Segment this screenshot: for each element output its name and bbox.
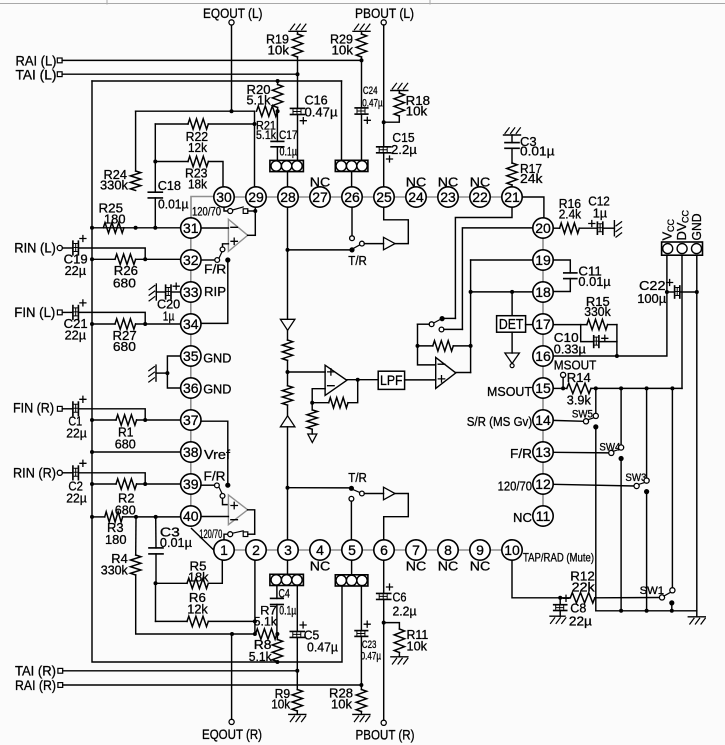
svg-text:0.01µ: 0.01µ xyxy=(160,535,192,550)
resistor R15 330k xyxy=(587,319,608,329)
pin 7 xyxy=(406,540,426,560)
pin 19 xyxy=(533,250,553,270)
wire box2 mid to pin26 xyxy=(351,172,353,188)
svg-text:28: 28 xyxy=(280,189,296,205)
junction ground bracket xyxy=(165,371,169,375)
svg-text:0.47µ: 0.47µ xyxy=(362,97,383,109)
capacitor C10 0.33u xyxy=(581,325,594,342)
resistor U4 feedback xyxy=(418,345,433,347)
wire pin39 to F/R switch xyxy=(201,484,215,486)
resistor below feedback xyxy=(311,403,313,410)
svg-text:680: 680 xyxy=(113,276,136,291)
resistor U3 feedback xyxy=(329,398,348,408)
arrow down below resistor xyxy=(308,434,317,443)
switch T/R top upper contact xyxy=(350,236,355,241)
wire pin to SW5 xyxy=(553,419,583,422)
switch 120/70 top: pin30 stub xyxy=(224,207,227,211)
wire det B xyxy=(444,328,463,330)
wire C2 to R2 row xyxy=(78,473,145,484)
junction EQOUT(R)/R4 wire xyxy=(230,632,234,636)
svg-text:F/R: F/R xyxy=(204,468,226,483)
junction Vcc/C22 xyxy=(665,290,669,294)
terminal RAI (L) xyxy=(57,58,62,63)
wire pin15 row xyxy=(553,387,567,389)
resistor R21 5.1k xyxy=(257,106,278,116)
svg-text:10k: 10k xyxy=(332,42,354,57)
buffer triangle up (bottom) xyxy=(280,416,295,427)
svg-text:18k: 18k xyxy=(188,176,207,191)
svg-text:3.9k: 3.9k xyxy=(567,393,591,408)
terminal RAI (R) xyxy=(58,683,63,688)
svg-text:17: 17 xyxy=(535,316,551,332)
wire GND vertical xyxy=(696,255,698,610)
svg-text:2.2µ: 2.2µ xyxy=(393,603,417,618)
junction R24/R25 row xyxy=(134,226,138,230)
wire C21 to R27 row xyxy=(78,312,145,324)
ground at pins35-36 xyxy=(155,365,157,381)
wire RIN(L) to C19 xyxy=(62,247,73,249)
junction T/R bottom row xyxy=(286,486,290,490)
svg-text:C17: C17 xyxy=(279,130,298,142)
junction U4 fb right xyxy=(469,344,473,348)
wire pin19 row xyxy=(471,259,533,261)
resistor R27 680 xyxy=(115,319,136,329)
SW5 common dot xyxy=(593,424,598,429)
capacitor C19 22u xyxy=(72,241,74,255)
switch 120/70 bottom: pin1 stub xyxy=(224,534,227,540)
buffer B2 (T/R bottom) xyxy=(384,487,396,500)
ground at C12 xyxy=(613,221,615,236)
wire EQOUT(L) vertical xyxy=(231,25,233,111)
svg-text:3: 3 xyxy=(284,542,292,558)
switch SW1 common dot xyxy=(669,600,674,605)
svg-text:FIN (R): FIN (R) xyxy=(13,400,54,416)
capacitor C24 0.47u xyxy=(355,107,368,109)
pin 10 xyxy=(502,540,522,560)
svg-text:10: 10 xyxy=(504,542,520,558)
capacitor C22 100u xyxy=(667,291,675,293)
pin 5 xyxy=(342,540,362,560)
svg-text:31: 31 xyxy=(183,220,199,236)
wire pin28 vertical upper xyxy=(287,207,289,319)
wire FIN(L) to C21 xyxy=(62,311,73,313)
wire DET row to pin18 xyxy=(471,291,533,293)
wire U2 output xyxy=(248,510,255,534)
pin 33 xyxy=(181,282,201,302)
pin 32 xyxy=(181,250,201,270)
terminal MSOUT test point xyxy=(561,372,566,377)
wire R4 row right part xyxy=(232,633,256,635)
svg-text:0.47µ: 0.47µ xyxy=(305,104,339,119)
pin 12 xyxy=(533,474,553,494)
svg-text:21: 21 xyxy=(504,189,520,205)
resistor R5 18k xyxy=(187,578,208,588)
svg-text:PBOUT (L): PBOUT (L) xyxy=(355,6,414,21)
wire U1 plus input path xyxy=(223,244,229,247)
switch T/R top common dot xyxy=(349,247,354,252)
wire pin32 to F/R switch xyxy=(201,259,215,261)
pin 27 xyxy=(310,187,330,207)
junction U4 fb left xyxy=(416,344,420,348)
resistor R1 680 xyxy=(116,415,137,425)
wire pin21 route xyxy=(455,207,512,318)
svg-text:10k: 10k xyxy=(406,104,428,119)
IC body link top row (grey) xyxy=(224,196,512,198)
pin 22 xyxy=(470,187,490,207)
junction center column/opamp plus xyxy=(286,370,290,374)
svg-text:19: 19 xyxy=(535,252,551,268)
junction TAI(L)/R19 net xyxy=(296,72,300,76)
resistor center lower xyxy=(282,386,292,405)
switch 120/70 bottom throw contact xyxy=(243,532,248,537)
wire RIN(R) to C2 xyxy=(62,472,73,474)
wire to buffer B1 xyxy=(364,243,383,245)
svg-text:40: 40 xyxy=(183,508,199,524)
ground at R11 xyxy=(391,656,408,658)
switch 120/70 top movable contact xyxy=(228,209,233,214)
svg-text:120/70: 120/70 xyxy=(498,478,532,493)
wire U4 minus input xyxy=(418,324,436,365)
pin 25 xyxy=(374,187,394,207)
label GND (rotated) xyxy=(689,214,704,241)
junction R20 top xyxy=(276,79,280,83)
wire PBOUT(R) vertical xyxy=(383,560,385,593)
svg-text:T/R: T/R xyxy=(348,253,367,268)
terminal TAI (L) xyxy=(57,72,62,77)
switch T/R bottom throw contact xyxy=(360,491,365,496)
svg-text:1µ: 1µ xyxy=(593,205,608,220)
svg-text:C18: C18 xyxy=(158,178,181,193)
pin 21 xyxy=(502,187,522,207)
junction C21 path/R27 row xyxy=(143,322,147,326)
svg-text:DV: DV xyxy=(674,222,689,240)
wire switch to pin29 net xyxy=(248,210,256,212)
wire net y111 row xyxy=(136,110,255,112)
junction bus/R27 xyxy=(90,322,94,326)
wire y82 row xyxy=(92,80,342,82)
svg-text:TAI (L): TAI (L) xyxy=(16,66,57,82)
svg-text:25: 25 xyxy=(376,189,392,205)
switch det B contact xyxy=(439,327,444,332)
svg-text:120/70: 120/70 xyxy=(192,204,221,218)
svg-text:35: 35 xyxy=(183,348,199,364)
resistor R20 5.1k xyxy=(272,85,282,108)
capacitor C23 0.47u xyxy=(360,586,362,631)
svg-text:8: 8 xyxy=(444,542,452,558)
wire box2 left pin vertical xyxy=(341,81,343,160)
svg-text:13: 13 xyxy=(535,444,551,460)
junction TAI(R)/C5-R9 xyxy=(295,669,299,673)
svg-text:22µ: 22µ xyxy=(569,614,593,629)
wire EQOUT(R) vertical xyxy=(231,634,233,719)
wire mute bus xyxy=(596,610,697,612)
svg-text:RIN (L): RIN (L) xyxy=(14,240,56,256)
svg-text:29: 29 xyxy=(248,189,264,205)
svg-text:27: 27 xyxy=(312,189,328,205)
pin 1 xyxy=(214,540,234,560)
wire DET to pin17 xyxy=(526,324,533,326)
svg-text:10k: 10k xyxy=(331,696,352,711)
resistor R14 3.9k xyxy=(567,383,591,393)
svg-text:RIP: RIP xyxy=(204,284,226,299)
junction R7/R8/C4 xyxy=(275,632,279,636)
svg-text:180: 180 xyxy=(105,532,127,547)
resistor R28 10k xyxy=(356,690,366,712)
junction bus/Vref row xyxy=(90,450,94,454)
svg-text:12k: 12k xyxy=(188,140,207,155)
wire pin17 to R15 xyxy=(553,324,587,326)
wire PBOUT(L) vertical xyxy=(383,25,385,147)
svg-text:24: 24 xyxy=(408,189,424,205)
wire pin2 vertical xyxy=(254,560,256,634)
resistor R19 10k xyxy=(297,31,299,34)
wire T/R bottom row xyxy=(288,487,349,489)
svg-text:5.1k: 5.1k xyxy=(256,130,276,142)
junction pin29 stub/switch xyxy=(253,209,257,213)
pin 34 xyxy=(181,314,201,334)
svg-text:100µ: 100µ xyxy=(637,291,666,306)
pin 23 xyxy=(438,187,458,207)
wire U1 output xyxy=(248,234,256,236)
capacitor C6 2.2u xyxy=(377,592,391,594)
ground at C8 xyxy=(550,615,565,617)
switch F/R top upper contact xyxy=(220,247,225,252)
wire R2 row xyxy=(92,483,116,485)
SW5 movable contact xyxy=(583,419,588,424)
resistor R2 680 xyxy=(116,479,137,489)
svg-text:0.47µ: 0.47µ xyxy=(307,639,338,654)
switch SW1 throw contact (open) xyxy=(670,588,675,593)
capacitor C2 22u xyxy=(72,466,74,480)
wire TAI(R) xyxy=(63,670,298,672)
wire C10/R15 right vertical xyxy=(616,325,618,356)
switch F/R bottom movable contact xyxy=(215,483,220,488)
svg-text:22: 22 xyxy=(472,189,488,205)
switch 120/70 bottom lever xyxy=(233,531,244,533)
terminal PBOUT (R) xyxy=(381,720,386,725)
svg-text:0.01µ: 0.01µ xyxy=(158,196,189,211)
wire pin21 to pin20 link xyxy=(522,197,544,218)
junction R18/PBOUT(L) xyxy=(382,120,386,124)
wire R15 right xyxy=(608,324,617,326)
pin 38 xyxy=(181,442,201,462)
junction bus/R26 xyxy=(90,257,94,261)
SW3 movable contact xyxy=(634,483,639,488)
svg-text:11: 11 xyxy=(536,508,551,524)
junction U3 out/feedback xyxy=(356,378,360,382)
ground at R28 xyxy=(353,713,370,715)
svg-text:24k: 24k xyxy=(520,171,543,186)
pin 24 xyxy=(406,187,426,207)
switch det A contact dot xyxy=(440,316,445,321)
SW3 lever xyxy=(639,483,645,485)
terminal RIN (R) xyxy=(57,470,62,475)
junction R20/R21 xyxy=(276,109,280,113)
wire pin to SW3 xyxy=(553,484,634,486)
junction C18/R25 row xyxy=(153,226,157,230)
svg-text:680: 680 xyxy=(115,437,136,452)
wire R1 row xyxy=(92,419,116,421)
SW4 movable contact xyxy=(609,450,614,455)
junction bus/R25 xyxy=(90,226,94,230)
terminal PBOUT (L) xyxy=(381,20,386,25)
svg-text:C24: C24 xyxy=(363,85,378,97)
switch F/R top lever xyxy=(219,252,222,258)
wire box1 mid to pin28 xyxy=(287,172,289,187)
switch F/R bottom lower contact xyxy=(220,494,225,499)
switch T/R bottom common dot xyxy=(349,486,354,491)
buffer B1 (T/R top) xyxy=(384,237,396,250)
junction C3b/R5 row xyxy=(154,581,158,585)
resistor R9 10k xyxy=(296,671,298,690)
wire R20 stubs xyxy=(277,81,279,85)
svg-text:SW3: SW3 xyxy=(625,472,646,484)
pin 40 xyxy=(181,506,201,526)
pin 2 xyxy=(246,540,266,560)
svg-text:0.33µ: 0.33µ xyxy=(554,341,586,356)
junction R11 branch xyxy=(382,621,386,625)
svg-text:4: 4 xyxy=(316,542,324,558)
wire lower contact to pin5 xyxy=(350,501,352,540)
svg-text:38: 38 xyxy=(183,444,199,460)
pin 9 xyxy=(470,540,490,560)
junction bus/R3 xyxy=(90,515,94,519)
svg-text:R14: R14 xyxy=(567,370,591,385)
junction R14/SW1 net xyxy=(670,386,674,390)
switch 120/70 top throw contact xyxy=(243,209,248,214)
svg-text:680: 680 xyxy=(113,339,136,354)
label DVcc (rotated) xyxy=(674,210,691,241)
wire feedback left to resistor xyxy=(312,402,329,404)
junction bus/R2 xyxy=(90,482,94,486)
SW4 upper vertical xyxy=(620,388,622,444)
svg-text:32: 32 xyxy=(183,252,199,268)
wire DET stub xyxy=(511,292,513,316)
svg-text:6: 6 xyxy=(380,542,388,558)
svg-text:2.2µ: 2.2µ xyxy=(391,142,417,157)
capacitor C3 0.01u (top) xyxy=(511,135,513,143)
capacitor C8 22u xyxy=(559,598,561,605)
resistor R11 10k xyxy=(384,623,400,629)
svg-text:EQOUT (L): EQOUT (L) xyxy=(203,6,263,21)
wire R25 row xyxy=(92,227,181,229)
wire R5-R6 link vertical xyxy=(155,583,157,621)
wire R24 top vertical xyxy=(135,111,137,171)
svg-text:1µ: 1µ xyxy=(163,309,175,324)
switch T/R top throw contact xyxy=(360,241,365,246)
svg-text:5.1k: 5.1k xyxy=(249,649,272,664)
SW3 upper vertical xyxy=(646,388,648,478)
svg-text:22µ: 22µ xyxy=(66,426,87,441)
junction RAI(L)/R29 net xyxy=(360,58,364,62)
wire pin to SW4 xyxy=(553,451,609,454)
resistor R25 180 xyxy=(103,223,124,233)
svg-text:5: 5 xyxy=(348,542,356,558)
svg-text:180: 180 xyxy=(104,211,126,226)
pin 8 xyxy=(438,540,458,560)
terminal TAI (R) xyxy=(58,668,63,673)
svg-text:2.4k: 2.4k xyxy=(559,206,582,221)
svg-text:C23: C23 xyxy=(362,639,377,651)
ground at C20 xyxy=(155,284,157,300)
connector box below pin3 xyxy=(270,574,304,585)
switch T/R bottom lever xyxy=(353,490,359,493)
junction R22/pin29 vertical xyxy=(253,122,257,126)
wire pin19 vertical xyxy=(470,260,472,373)
pin 28 xyxy=(278,187,298,207)
svg-text:23: 23 xyxy=(440,189,456,205)
wire U3 minus feedback left xyxy=(312,389,325,403)
junction R14/SW4 net xyxy=(619,386,623,390)
wire pin16 row xyxy=(553,255,667,356)
svg-text:GND: GND xyxy=(689,214,704,241)
wire center junction to U3 plus xyxy=(288,371,326,373)
switch SW1 movable contact xyxy=(659,595,664,600)
capacitor C3 0.01u (bottom) xyxy=(155,517,157,548)
wire pin20 route xyxy=(462,228,533,330)
SW4 throw contact (open) xyxy=(619,445,624,450)
wire F/R common to pin34 xyxy=(201,260,228,323)
svg-text:DET: DET xyxy=(499,317,524,333)
svg-text:22k: 22k xyxy=(572,579,596,594)
svg-text:1: 1 xyxy=(220,542,228,558)
wire pin10 to R12 xyxy=(512,560,560,598)
svg-text:26: 26 xyxy=(344,189,360,205)
switch T/R bottom lower contact xyxy=(349,496,354,501)
SW4 lower vertical xyxy=(620,459,622,611)
pin 37 xyxy=(181,410,201,430)
pin 18 xyxy=(533,282,553,302)
wire U4 output xyxy=(456,372,471,374)
box DET xyxy=(497,316,526,333)
wire MSOUT stub xyxy=(562,377,564,388)
svg-text:12: 12 xyxy=(535,476,551,492)
pin 36 xyxy=(181,378,201,398)
svg-text:37: 37 xyxy=(183,412,199,428)
wire T/R top row xyxy=(288,249,350,251)
svg-text:330k: 330k xyxy=(101,563,128,578)
junction GND/C22 xyxy=(695,290,699,294)
SW3 common dot xyxy=(644,489,649,494)
wire below DET xyxy=(511,332,513,353)
junction R23/C18 vertical xyxy=(153,160,157,164)
ground at R9 xyxy=(289,713,306,715)
wire det common xyxy=(418,323,430,325)
pin 29 xyxy=(246,187,266,207)
SW5 lower vertical xyxy=(595,427,597,611)
resistor R6 12k xyxy=(187,616,208,626)
wire U2 plus input path xyxy=(223,498,229,504)
diagonal pin40 to pin1 xyxy=(192,529,214,550)
svg-text:0.01µ: 0.01µ xyxy=(578,274,611,289)
wire pin3 to box3 xyxy=(287,560,289,574)
switch 120/70 top lever xyxy=(233,207,244,210)
wire, resistor upper xyxy=(287,330,289,340)
pin 26 xyxy=(342,187,362,207)
op-amp U1 (grey, pins30/31) xyxy=(228,219,247,251)
wire pin40 to U2 minus xyxy=(201,516,229,518)
junction C8 xyxy=(558,596,562,600)
resistor R7 5.1k xyxy=(256,629,277,639)
capacitor C1 22u xyxy=(72,402,74,416)
wire R22 row xyxy=(155,123,188,125)
wire DVcc vertical xyxy=(681,255,683,388)
capacitor C15 2.2u xyxy=(377,146,391,148)
svg-text:12k: 12k xyxy=(187,602,208,617)
SW4 lever xyxy=(613,450,619,452)
SW5 upper vertical xyxy=(595,388,597,413)
capacitor C21 22u xyxy=(72,306,74,320)
